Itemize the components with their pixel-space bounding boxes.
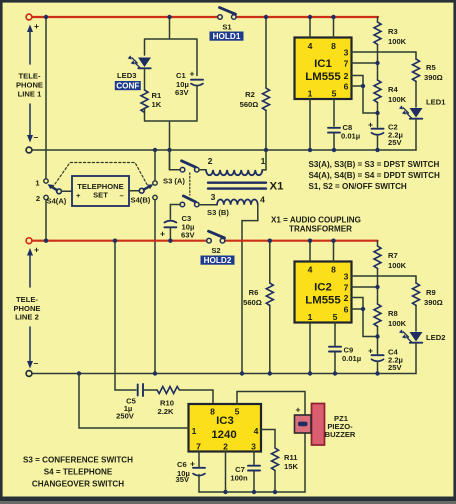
piezo buzzer PZ1 xyxy=(295,404,325,446)
label pin 1 xyxy=(261,156,266,166)
svg-text:8: 8 xyxy=(210,407,215,417)
svg-text:S4(B): S4(B) xyxy=(131,196,151,205)
transformer core xyxy=(208,183,266,189)
svg-text:R3: R3 xyxy=(388,27,398,36)
svg-text:C1: C1 xyxy=(176,71,186,80)
svg-text:6: 6 xyxy=(344,305,349,315)
svg-text:+: + xyxy=(76,191,81,200)
switch S2 xyxy=(207,231,225,243)
line 2 ground rail xyxy=(32,373,416,375)
svg-text:+: + xyxy=(190,69,195,79)
svg-text:SET: SET xyxy=(93,191,108,200)
svg-text:R4: R4 xyxy=(388,85,398,94)
label LED2 xyxy=(426,333,445,342)
svg-text:+: + xyxy=(34,245,39,255)
wire line2 to C5 branch xyxy=(114,241,116,390)
svg-text:250V: 250V xyxy=(116,412,135,421)
svg-text:3: 3 xyxy=(251,442,256,452)
label C2 values xyxy=(368,120,403,148)
label C8 0.01u xyxy=(341,123,360,141)
wire LED2 to rail2 xyxy=(415,344,417,374)
svg-text:8: 8 xyxy=(331,265,336,275)
label pin 2 xyxy=(208,156,213,166)
svg-text:CHANGEOVER SWITCH: CHANGEOVER SWITCH xyxy=(32,480,124,489)
svg-text:63V: 63V xyxy=(181,231,195,240)
svg-text:5: 5 xyxy=(333,312,338,322)
svg-text:1K: 1K xyxy=(152,100,162,109)
IC2 pin1 wire xyxy=(309,323,311,374)
svg-text:R11: R11 xyxy=(284,453,298,462)
label R7 100K xyxy=(388,251,407,270)
svg-text:HOLD1: HOLD1 xyxy=(213,32,241,41)
svg-text:8: 8 xyxy=(331,41,336,51)
IC3 pin2 wire xyxy=(225,452,227,493)
label R10 2.2K xyxy=(157,399,174,417)
label C6 values xyxy=(176,459,196,485)
telephone line 1 arrow xyxy=(27,25,33,143)
svg-text:S1: S1 xyxy=(222,23,232,32)
wire transformer pin4 down to rail2 xyxy=(242,205,258,374)
resistor R1 xyxy=(141,90,148,112)
svg-text:25V: 25V xyxy=(388,138,402,147)
svg-text:1: 1 xyxy=(261,156,266,166)
label S3(B) xyxy=(207,208,229,217)
LED2 xyxy=(399,329,423,342)
svg-text:+: + xyxy=(190,459,195,469)
svg-text:–: – xyxy=(34,358,39,368)
resistor R2 xyxy=(263,17,270,150)
resistor R4 xyxy=(374,63,381,113)
line 2 minus sign xyxy=(34,358,39,368)
line 1 ground rail xyxy=(32,149,416,151)
svg-text:3: 3 xyxy=(344,48,349,58)
svg-text:S4(A), S4(B) = S4 = DPDT SWITC: S4(A), S4(B) = S4 = DPDT SWITCH xyxy=(309,171,440,180)
IC2 pin4 pin8 wires to supply xyxy=(310,241,334,262)
line 1 plus sign xyxy=(34,21,39,31)
wire rail1 to S3(A) xyxy=(170,150,181,170)
telephone line 1 positive red wire xyxy=(32,16,378,18)
IC2 pin5 wire xyxy=(334,323,336,346)
svg-text:560Ω: 560Ω xyxy=(243,298,262,307)
label TELEPHONE LINE 1 xyxy=(16,72,43,99)
svg-text:+: + xyxy=(34,21,39,31)
wire S4(B) pin2 down to rail2 xyxy=(154,200,156,374)
IC3 pin5 wire to buzzer xyxy=(237,392,305,493)
svg-text:7: 7 xyxy=(196,442,201,452)
capacitor C2 xyxy=(372,113,384,150)
svg-text:100K: 100K xyxy=(388,95,407,104)
telephone line 2 arrow xyxy=(27,248,33,369)
label S2 xyxy=(211,246,220,255)
svg-text:390Ω: 390Ω xyxy=(424,298,443,307)
switch S3(B) xyxy=(180,196,199,207)
svg-text:TELE-: TELE- xyxy=(19,72,41,81)
svg-text:100K: 100K xyxy=(388,319,407,328)
svg-text:BUZZER: BUZZER xyxy=(325,430,356,439)
svg-text:1: 1 xyxy=(308,89,313,99)
IC3 1240 xyxy=(189,404,262,452)
resistor R6 xyxy=(266,241,273,374)
svg-text:+: + xyxy=(160,229,165,239)
svg-text:S4(A): S4(A) xyxy=(47,197,67,206)
transformer X1 primary xyxy=(206,170,262,175)
S3 gang dotted link xyxy=(189,173,191,195)
transformer pin1 wire to rail1 xyxy=(262,150,266,170)
switch S3(A) xyxy=(180,161,199,172)
svg-text:LINE 2: LINE 2 xyxy=(15,313,39,322)
label R3 100K xyxy=(388,27,407,46)
label S4(A) xyxy=(47,197,67,206)
telephone line 2 positive red wire xyxy=(32,240,378,242)
note switches xyxy=(309,160,440,191)
telephone set box xyxy=(72,176,129,206)
svg-text:LM555: LM555 xyxy=(305,295,341,307)
label R8 100K xyxy=(388,309,407,328)
label C7 100n xyxy=(230,465,248,483)
IC1 pin4 pin8 wires to supply xyxy=(310,17,334,38)
label R2 560ohm xyxy=(240,90,259,109)
svg-text:TRANSFORMER: TRANSFORMER xyxy=(289,225,352,234)
svg-text:LED3: LED3 xyxy=(117,71,136,80)
svg-text:7: 7 xyxy=(344,283,349,293)
svg-text:LED1: LED1 xyxy=(426,98,446,107)
label TELEPHONE LINE 2 xyxy=(13,295,40,322)
svg-text:S3 (A): S3 (A) xyxy=(163,177,185,186)
line 2 minus terminal xyxy=(26,371,32,377)
capacitor C1 xyxy=(191,80,203,86)
svg-text:15K: 15K xyxy=(284,462,298,471)
label CONF xyxy=(115,81,141,91)
switch S4(B) xyxy=(139,181,157,200)
resistor R5 xyxy=(413,52,420,107)
label pin 3 xyxy=(211,192,216,202)
line 1 minus terminal xyxy=(26,147,32,153)
label HOLD2 xyxy=(201,256,235,266)
note X1 xyxy=(271,216,361,234)
capacitor C3 xyxy=(164,221,176,241)
wire LED3/C1 bottom loop xyxy=(145,86,198,170)
svg-text:–: – xyxy=(120,191,124,200)
junction dots red line 1 xyxy=(44,15,336,19)
wire S3(B) to transformer pin3 xyxy=(199,204,217,206)
svg-text:IC3: IC3 xyxy=(216,415,234,427)
IC1 pin2 pin6 wire xyxy=(352,76,378,114)
resistor R9 xyxy=(413,276,420,331)
IC3 pin3 wire xyxy=(253,452,255,465)
wire line1+ to S4(A) pin1 xyxy=(45,17,47,179)
svg-text:LED2: LED2 xyxy=(426,333,445,342)
svg-text:R8: R8 xyxy=(388,309,398,318)
svg-text:S3 (B): S3 (B) xyxy=(207,208,229,217)
svg-text:R6: R6 xyxy=(249,288,259,297)
IC2 pin7 wire xyxy=(352,286,378,288)
svg-text:2: 2 xyxy=(208,156,213,166)
svg-text:+: + xyxy=(368,346,373,356)
wire to C5 xyxy=(115,389,136,391)
wire LED3 branch top xyxy=(145,17,198,76)
svg-text:100n: 100n xyxy=(230,474,248,483)
svg-text:LINE 1: LINE 1 xyxy=(18,90,42,99)
wire S4(A) pole to telephone set xyxy=(62,190,73,192)
svg-text:IC1: IC1 xyxy=(314,58,332,70)
capacitor C5 xyxy=(138,384,143,396)
svg-text:LM555: LM555 xyxy=(305,71,341,83)
junction dots bottom xyxy=(223,490,277,494)
label C5 values xyxy=(116,397,136,421)
wire telephone set to S4(B) pole xyxy=(129,190,139,192)
wire LED1 to rail xyxy=(415,120,417,151)
label C9 0.01u xyxy=(342,346,361,364)
svg-text:25V: 25V xyxy=(388,363,402,372)
svg-text:S3 = CONFERENCE SWITCH: S3 = CONFERENCE SWITCH xyxy=(23,456,133,465)
svg-text:4: 4 xyxy=(308,265,313,275)
label R5 390ohm xyxy=(424,63,443,82)
svg-text:PHONE: PHONE xyxy=(16,81,43,90)
label S4(B) xyxy=(131,196,151,205)
svg-text:0.01µ: 0.01µ xyxy=(342,354,361,363)
IC1 LM555 xyxy=(295,38,352,100)
IC1 pin1 wire xyxy=(309,99,311,150)
svg-text:1: 1 xyxy=(308,312,313,322)
note S3 S4 xyxy=(23,456,133,489)
svg-text:1240: 1240 xyxy=(211,429,236,441)
svg-text:63V: 63V xyxy=(175,88,189,97)
svg-text:X1: X1 xyxy=(270,181,285,193)
svg-text:560Ω: 560Ω xyxy=(240,100,259,109)
svg-text:1: 1 xyxy=(192,426,197,436)
LED3 xyxy=(128,55,151,68)
svg-text:HOLD2: HOLD2 xyxy=(204,256,232,265)
label HOLD1 xyxy=(210,32,244,42)
S4 gang dashed link xyxy=(53,163,148,188)
wire LED3 to R1 xyxy=(144,69,146,90)
wire S3(B) to C3 xyxy=(170,205,180,220)
label S3(A) xyxy=(163,177,185,186)
svg-text:7: 7 xyxy=(344,59,349,69)
svg-text:3: 3 xyxy=(344,272,349,282)
line 1 minus sign xyxy=(34,132,39,142)
label C4 values xyxy=(368,346,403,373)
label X1 xyxy=(270,181,285,193)
label 1 xyxy=(35,179,40,188)
svg-text:390Ω: 390Ω xyxy=(424,73,443,82)
label R1 1K xyxy=(152,91,162,109)
wire S4(B) pin1 to rail1 xyxy=(154,150,156,181)
svg-text:100K: 100K xyxy=(388,261,407,270)
svg-text:TELE-: TELE- xyxy=(16,295,38,304)
svg-text:–: – xyxy=(34,132,39,142)
label R9 390ohm xyxy=(424,288,443,307)
svg-text:R9: R9 xyxy=(426,288,436,297)
IC3 pin1 wire to rail2 xyxy=(79,374,189,429)
svg-text:2: 2 xyxy=(36,194,40,203)
resistor R3 xyxy=(374,17,381,63)
junction dots rail 2 xyxy=(77,285,380,376)
label S1 xyxy=(222,23,232,32)
resistor R11 xyxy=(272,448,279,492)
label PZ1 plus xyxy=(296,405,301,415)
capacitor C8 xyxy=(328,128,340,150)
svg-text:5: 5 xyxy=(332,89,337,99)
svg-text:5: 5 xyxy=(235,407,240,417)
svg-text:S2: S2 xyxy=(211,246,220,255)
svg-text:4: 4 xyxy=(308,41,313,51)
svg-text:R1: R1 xyxy=(152,91,162,100)
junction dots red line 2 xyxy=(44,239,336,243)
IC2 LM555 xyxy=(295,262,352,323)
svg-text:R7: R7 xyxy=(388,251,398,260)
svg-text:35V: 35V xyxy=(176,475,190,484)
transformer X1 secondary xyxy=(217,200,258,205)
capacitor C7 xyxy=(248,466,260,492)
svg-text:+: + xyxy=(368,120,373,130)
IC3 pin7 wire xyxy=(198,452,200,467)
IC1 pin7 wire xyxy=(352,62,378,64)
svg-text:X1 = AUDIO COUPLING: X1 = AUDIO COUPLING xyxy=(271,216,361,225)
svg-text:IC2: IC2 xyxy=(314,282,332,294)
wire R10 to IC3 pin8 xyxy=(179,390,213,404)
label LED3 xyxy=(117,71,136,80)
svg-text:4: 4 xyxy=(260,195,265,205)
svg-text:0.01µ: 0.01µ xyxy=(341,132,360,141)
wire S4(A) pin2 to line2 xyxy=(45,200,47,241)
svg-text:R5: R5 xyxy=(426,63,436,72)
svg-text:2.2K: 2.2K xyxy=(157,407,174,416)
IC2 pin3 wire xyxy=(352,275,417,277)
svg-text:2: 2 xyxy=(344,71,349,81)
capacitor C9 xyxy=(329,347,341,374)
resistor R8 xyxy=(374,287,381,337)
label pin 4 xyxy=(260,195,265,205)
capacitor C4 xyxy=(372,337,384,374)
label R6 560ohm xyxy=(243,288,262,307)
svg-text:S4 = TELEPHONE: S4 = TELEPHONE xyxy=(44,468,113,477)
IC1 pin3 wire xyxy=(352,51,417,53)
IC3 pin4 wire xyxy=(261,430,275,449)
svg-text:CONF: CONF xyxy=(116,82,139,91)
svg-text:R2: R2 xyxy=(245,90,255,99)
IC1 pin5 wire xyxy=(333,99,335,126)
wire C5 to R10 xyxy=(145,389,158,391)
svg-text:100K: 100K xyxy=(388,37,407,46)
line 2 plus sign xyxy=(34,245,39,255)
line 1 plus terminal xyxy=(26,14,32,20)
LED1 xyxy=(399,105,423,118)
line 2 plus terminal xyxy=(26,238,32,244)
svg-text:S1, S2 = ON/OFF SWITCH: S1, S2 = ON/OFF SWITCH xyxy=(309,182,407,191)
resistor R7 xyxy=(374,241,381,287)
svg-text:3: 3 xyxy=(211,192,216,202)
svg-text:2: 2 xyxy=(223,442,228,452)
svg-text:4: 4 xyxy=(254,426,259,436)
label R11 15K xyxy=(284,453,298,471)
svg-text:C6: C6 xyxy=(177,460,187,469)
label C3 values xyxy=(160,214,195,240)
label R4 100K xyxy=(388,85,407,104)
IC2 pin2 pin6 wire xyxy=(352,298,378,337)
label LED1 xyxy=(426,98,446,107)
label C1 10u 63V xyxy=(175,69,195,98)
svg-text:6: 6 xyxy=(344,82,349,92)
label 2 xyxy=(36,194,40,203)
label PZ1 PIEZO-BUZZER xyxy=(325,414,356,439)
svg-text:2: 2 xyxy=(344,293,349,303)
wire S3(A) to transformer pin2 xyxy=(199,169,206,171)
resistor R10 xyxy=(157,387,179,394)
junction dots rail 1 xyxy=(153,61,380,152)
svg-text:+: + xyxy=(296,405,301,415)
capacitor C6 xyxy=(193,468,205,492)
bottom return wire xyxy=(199,491,305,493)
switch S1 xyxy=(218,8,236,20)
switch S4(A) xyxy=(44,179,62,200)
svg-text:S3(A), S3(B) = S3 = DPST SWITC: S3(A), S3(B) = S3 = DPST SWITCH xyxy=(309,160,440,169)
